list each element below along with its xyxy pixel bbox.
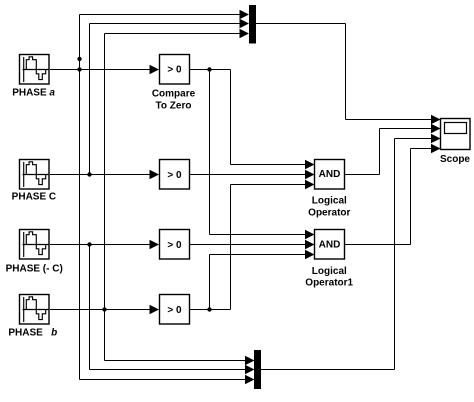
svg-text:PHASE a: PHASE a bbox=[12, 88, 55, 99]
svg-text:Scope: Scope bbox=[440, 154, 470, 165]
svg-text:Logical: Logical bbox=[312, 266, 347, 277]
svg-text:> 0: > 0 bbox=[167, 65, 182, 76]
svg-text:PHASE C: PHASE C bbox=[12, 192, 56, 203]
svg-text:PHASE b: PHASE b bbox=[8, 328, 57, 339]
svg-text:> 0: > 0 bbox=[167, 240, 182, 251]
svg-text:To Zero: To Zero bbox=[156, 101, 192, 112]
svg-text:Logical: Logical bbox=[312, 196, 347, 207]
svg-text:AND: AND bbox=[319, 240, 341, 251]
svg-text:Compare: Compare bbox=[152, 89, 196, 100]
svg-text:AND: AND bbox=[319, 169, 341, 180]
svg-text:> 0: > 0 bbox=[167, 305, 182, 316]
svg-text:> 0: > 0 bbox=[167, 170, 182, 181]
svg-text:Operator: Operator bbox=[308, 208, 350, 219]
svg-text:PHASE (- C): PHASE (- C) bbox=[6, 264, 63, 275]
svg-text:Operator1: Operator1 bbox=[305, 278, 353, 289]
